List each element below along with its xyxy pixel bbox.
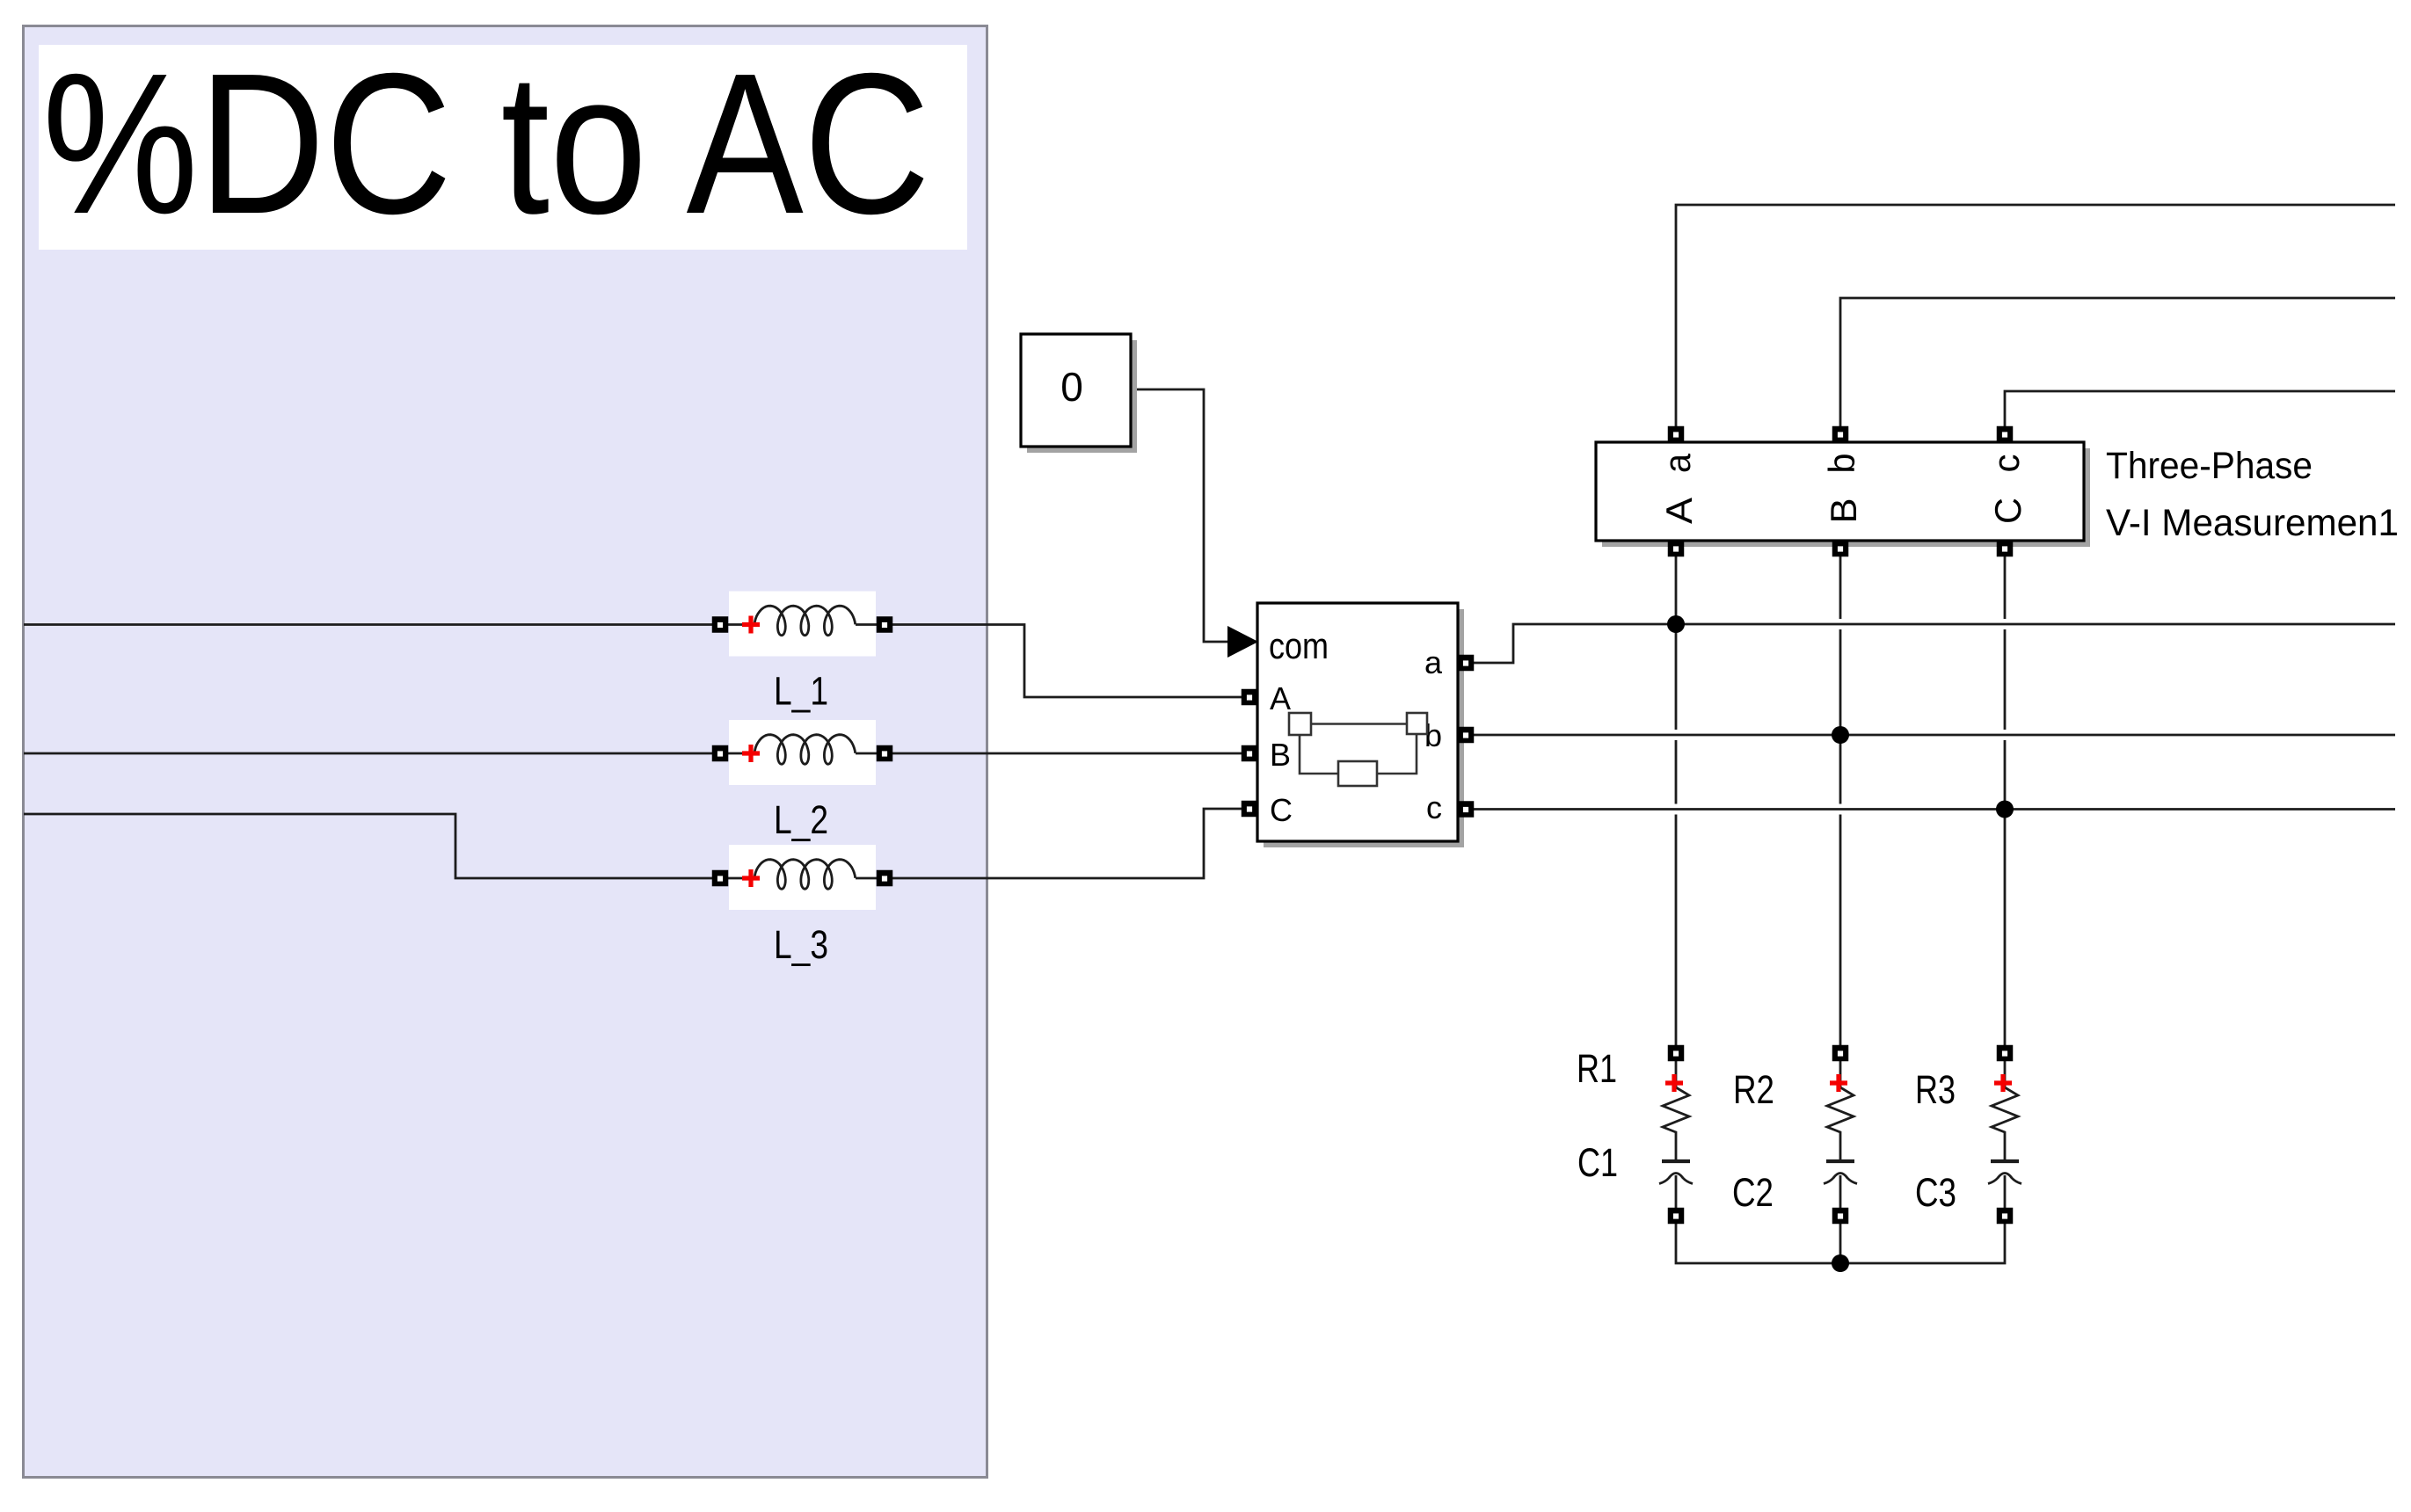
wire R2 top stem [1839, 1061, 1842, 1087]
svg-text:0: 0 [1060, 364, 1083, 410]
svg-text:a: a [1424, 644, 1443, 680]
resistor R1 [1663, 1087, 1689, 1161]
port L_3 left [712, 870, 729, 887]
port bridge C [1242, 801, 1258, 818]
bridge com arrow [1227, 626, 1258, 658]
port VI c top [1997, 426, 2014, 443]
svg-text:R1: R1 [1577, 1046, 1617, 1091]
svg-text:R2: R2 [1733, 1067, 1774, 1112]
VI block shadow [1602, 448, 2090, 547]
svg-text:L_1: L_1 [774, 669, 828, 714]
svg-text:C1: C1 [1577, 1140, 1618, 1185]
wire VI column c vertical [2004, 441, 2007, 1046]
svg-text:com: com [1269, 625, 1329, 666]
port L_3 right [877, 870, 893, 887]
port L_1 left [712, 616, 729, 633]
port R3C3 top [1997, 1045, 2014, 1062]
resistor R3 [1992, 1087, 2018, 1161]
inductor L_3 [728, 877, 754, 880]
svg-text:B: B [1270, 737, 1291, 773]
polarity mark R2 [1830, 1074, 1847, 1092]
inductor L_2 [728, 752, 754, 755]
polarity mark L_2 [742, 745, 760, 762]
port VI C bottom [1997, 541, 2014, 557]
port R2C2 top [1832, 1045, 1849, 1062]
port bridge b [1458, 727, 1475, 744]
junction node A [1667, 615, 1685, 633]
bridge inner icon [1289, 713, 1427, 786]
wire rail C / node C [1474, 808, 2395, 811]
svg-text:R3: R3 [1915, 1067, 1956, 1112]
svg-text:a: a [1657, 453, 1698, 473]
resistor R2 [1827, 1087, 1854, 1161]
polarity mark R1 [1665, 1074, 1683, 1092]
svg-text:C: C [1270, 792, 1293, 828]
wire phase C from left edge to L_3 [24, 814, 713, 878]
svg-text:Three-Phase: Three-Phase [2106, 445, 2313, 487]
port bridge a [1458, 655, 1475, 672]
junction node C [1996, 801, 2014, 818]
VI block body [1596, 442, 2084, 541]
wire phase A from left edge to L_1 [24, 623, 713, 626]
polarity mark L_3 [742, 869, 760, 887]
svg-text:L_2: L_2 [774, 797, 828, 842]
wire VI b top to right edge [1840, 298, 2395, 427]
svg-text:C3: C3 [1915, 1170, 1956, 1215]
wire bridge a to rail A / node A [1474, 624, 2395, 663]
port bridge c [1458, 801, 1475, 818]
bridge block body [1257, 603, 1458, 841]
wire VI column a vertical [1675, 441, 1678, 1046]
svg-text:C2: C2 [1732, 1170, 1774, 1215]
port L_2 left [712, 745, 729, 762]
port bridge B [1242, 745, 1258, 762]
svg-text:C: C [1987, 498, 2029, 524]
port R1C1 bottom [1668, 1208, 1685, 1225]
wire VI c top to right edge [2005, 391, 2395, 427]
wire VI a top to right edge [1676, 205, 2395, 427]
port R3C3 bottom [1997, 1208, 2014, 1225]
svg-text:A: A [1658, 498, 1700, 524]
port L_2 right [877, 745, 893, 762]
svg-text:B: B [1823, 498, 1864, 524]
polarity mark R3 [1994, 1074, 2012, 1092]
inductor L_1 background [729, 592, 876, 657]
svg-text:%DC to AC: %DC to AC [42, 33, 930, 256]
port bridge com/A [1242, 689, 1258, 706]
port R1C1 top [1668, 1045, 1685, 1062]
capacitor C3 [1991, 1159, 2019, 1163]
DC-to-AC subsystem region [24, 26, 987, 1478]
wire R3 top stem [2004, 1061, 2007, 1087]
capacitor C2 [1826, 1159, 1854, 1163]
inductor L_3 background [729, 845, 876, 910]
svg-text:c: c [1985, 454, 2027, 473]
wire bottom rail joining C1 C2 C3 [1676, 1223, 2005, 1263]
constant block 0 [1021, 334, 1131, 447]
wire L_2 to bridge input B [892, 752, 1242, 755]
bridge block shadow [1264, 609, 1464, 847]
port VI B bottom [1832, 541, 1849, 557]
svg-text:c: c [1426, 789, 1442, 825]
wire phase B from left edge to L_2 [24, 752, 713, 755]
junction node B [1832, 726, 1849, 744]
port VI A bottom [1668, 541, 1685, 557]
wire R1 top stem [1675, 1061, 1678, 1087]
constant block 0 shadow [1027, 340, 1137, 453]
port VI b top [1832, 426, 1849, 443]
inductor L_1 [728, 623, 754, 626]
svg-text:V-I Measuremen1: V-I Measuremen1 [2106, 502, 2399, 544]
port L_1 right [877, 616, 893, 633]
svg-text:L_3: L_3 [774, 922, 828, 967]
inductor L_2 background [729, 720, 876, 785]
junction bottom rail [1832, 1254, 1849, 1272]
port VI a top [1668, 426, 1685, 443]
wire constant 0 to com [1131, 389, 1227, 642]
polarity mark L_1 [742, 616, 760, 634]
wire VI column b vertical [1839, 441, 1842, 1046]
title box [39, 45, 967, 250]
svg-text:b: b [1821, 454, 1862, 474]
capacitor C1 [1662, 1159, 1690, 1163]
wire rail B / node B [1474, 734, 2395, 737]
svg-text:A: A [1270, 680, 1291, 716]
wire L_1 to bridge input A [892, 625, 1242, 698]
port R2C2 bottom [1832, 1208, 1849, 1225]
wire L_3 to bridge input C [892, 809, 1242, 878]
